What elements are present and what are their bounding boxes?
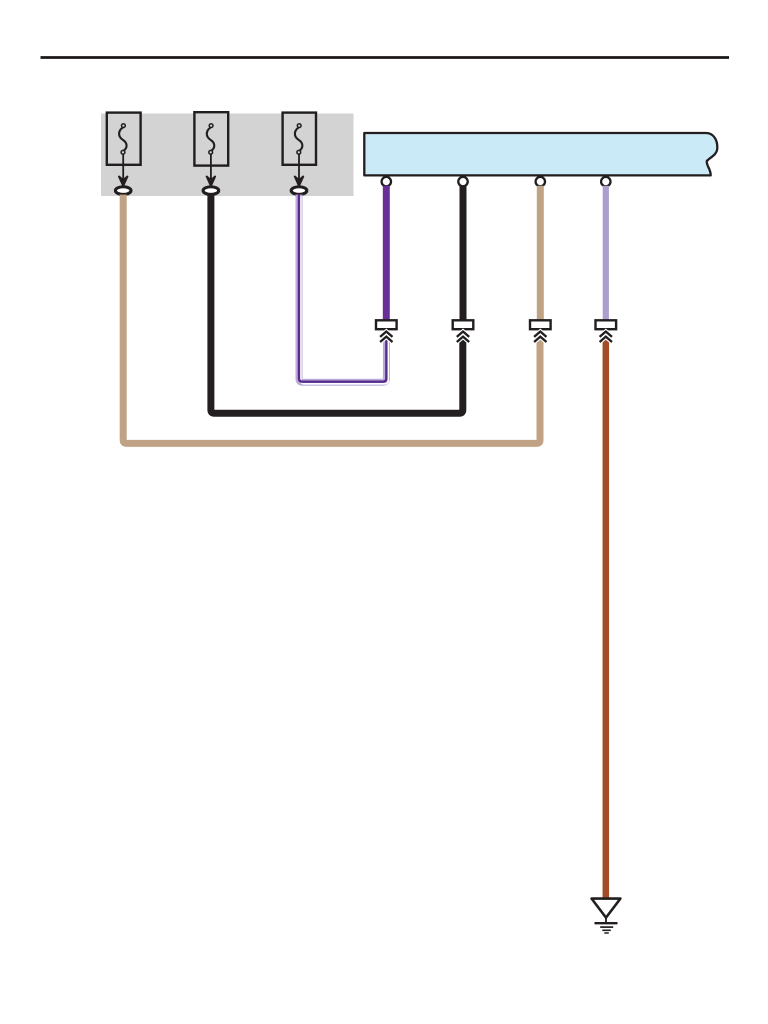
connector J3	[530, 320, 551, 329]
ground	[592, 899, 621, 933]
bus terminal circle 1	[382, 177, 391, 186]
arrow from circuit breaker 2	[207, 154, 215, 186]
circuit breaker 3	[283, 113, 316, 165]
circuit breaker 1	[107, 113, 141, 165]
connector J2	[453, 320, 474, 329]
wire: black from circuit breaker 2 to connector J2	[211, 195, 463, 414]
wire harness bus (light blue)	[364, 133, 717, 175]
connector J3 chevrons	[534, 332, 546, 343]
connector ring 1	[115, 187, 131, 195]
connector J1	[376, 320, 397, 329]
connector ring 3	[291, 187, 307, 195]
connector J1 chevrons	[380, 332, 392, 343]
connector J2 chevrons	[457, 332, 469, 343]
wire: violet/white striped from circuit breaker 3 to connector J1	[299, 194, 388, 384]
bus terminal circle 4	[601, 177, 610, 186]
wire: violet from bus to connector J1	[383, 186, 390, 321]
bus terminal circle 2	[458, 177, 467, 186]
arrow from circuit breaker 3	[295, 154, 303, 186]
fuse box panel	[101, 114, 354, 197]
arrow from circuit breaker 1	[119, 154, 127, 186]
connector ring 2	[203, 187, 219, 195]
wire: tan from circuit breaker 1 to connector J3	[123, 195, 540, 444]
wire: black from bus to connector J2	[460, 186, 467, 321]
wire: rust brown from connector J4 to ground	[603, 338, 610, 898]
circuit breaker 2	[194, 112, 228, 165]
wire: lavender from bus to connector J4	[603, 186, 609, 321]
top rule	[41, 56, 730, 59]
connector J4	[596, 320, 617, 329]
bus terminal circle 3	[536, 177, 545, 186]
wire: tan from bus to connector J3	[537, 186, 544, 321]
connector J4 chevrons	[600, 332, 612, 343]
